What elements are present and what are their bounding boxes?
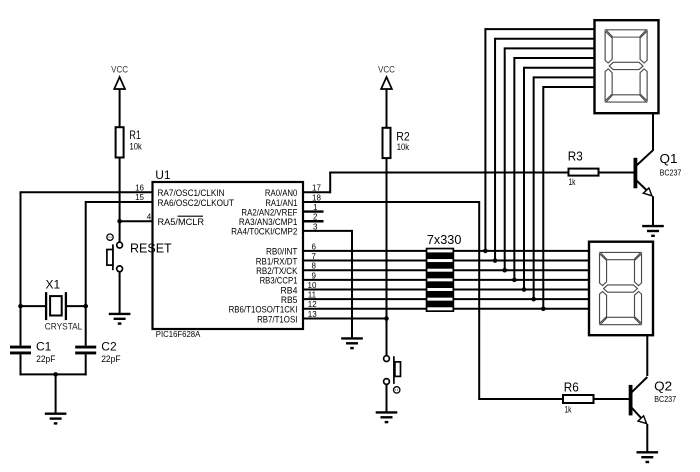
node pin4 junction	[117, 219, 122, 224]
pin name RA5/MCLR	[158, 217, 205, 227]
wire pack to display2 pin 2	[453, 260, 589, 262]
pin name RB5	[281, 295, 298, 305]
wire display1 segment 5	[524, 67, 595, 290]
label R1 value	[130, 141, 143, 151]
wire display1 segment 3	[505, 47, 595, 270]
node segment 7 junction	[541, 307, 546, 312]
power VCC1	[111, 65, 128, 90]
wire pin4 node to button	[119, 221, 121, 242]
wire pin3 RA4 to ground	[303, 230, 352, 339]
svg-text:RESET: RESET	[130, 242, 172, 256]
pin name RB7/T1OSI	[257, 314, 297, 324]
label R3	[568, 149, 583, 163]
display DS1 body	[595, 20, 659, 113]
ground Q1 emitter	[642, 226, 664, 236]
pin name RA2/AN2/VREF	[241, 207, 297, 217]
svg-text:U1: U1	[155, 168, 171, 182]
svg-text:10k: 10k	[130, 141, 143, 151]
pin number 16	[135, 183, 144, 192]
wire button to ground	[119, 272, 121, 314]
wire display1 segment 2	[495, 38, 594, 261]
node cap loop bottom junction	[53, 372, 58, 377]
svg-text:BC237: BC237	[654, 394, 676, 404]
svg-text:CRYSTAL: CRYSTAL	[45, 321, 83, 331]
label R6 value	[565, 404, 572, 414]
capacitor C2	[75, 306, 96, 375]
svg-text:RA1/AN1: RA1/AN1	[265, 198, 297, 208]
wire display1 common	[652, 113, 654, 151]
wire RB6 to pack	[303, 308, 427, 310]
svg-text:RA6/OSC2/CLKOUT: RA6/OSC2/CLKOUT	[158, 198, 235, 208]
pin name RB4	[281, 285, 298, 295]
svg-text:R6: R6	[564, 381, 579, 395]
pin number 8	[312, 262, 317, 271]
pin number 4	[147, 212, 152, 221]
svg-text:10k: 10k	[397, 142, 410, 152]
svg-text:15: 15	[135, 193, 144, 202]
label Q2 type BC237	[654, 394, 676, 404]
node crystal-left junction	[18, 304, 23, 309]
label R2 value	[397, 142, 410, 152]
svg-text:R3: R3	[568, 149, 583, 163]
label CRYSTAL	[45, 321, 83, 331]
label C1	[36, 339, 52, 353]
wire pack to display2 pin 4	[453, 279, 589, 281]
resistor pack RN1 7x330	[426, 248, 455, 312]
transistor Q1	[634, 150, 654, 226]
display DS2 digit	[600, 252, 642, 324]
pin name RB0/INT	[266, 247, 298, 257]
wire R6 to Q2 base	[594, 398, 630, 400]
label U1	[155, 168, 171, 182]
pin name RB1/RX/DT	[256, 256, 298, 266]
pin number 9	[312, 271, 317, 280]
pin number 7	[312, 252, 317, 261]
svg-text:RB5: RB5	[281, 295, 298, 305]
pin number 2	[313, 213, 318, 222]
pin number 15	[135, 193, 144, 202]
svg-text:PIC16F628A: PIC16F628A	[156, 329, 201, 339]
label PIC16F628A	[156, 329, 201, 339]
svg-text:Q2: Q2	[654, 379, 672, 393]
ground Q2 emitter	[637, 452, 659, 462]
pin name RB3/CCP1	[260, 276, 298, 286]
svg-text:RA0/AN0: RA0/AN0	[265, 188, 298, 198]
node segment 3 junction	[502, 268, 507, 273]
wire pack to display2 pin 1	[453, 250, 589, 252]
pin number 3	[313, 222, 318, 231]
svg-text:RA7/OSC1/CLKIN: RA7/OSC1/CLKIN	[158, 188, 225, 198]
capacitor C1	[10, 306, 31, 375]
svg-text:VCC: VCC	[111, 65, 128, 75]
svg-text:22pF: 22pF	[36, 354, 56, 364]
pin number 12	[308, 300, 317, 309]
label X1	[46, 278, 61, 292]
label Q1	[660, 152, 678, 166]
pin name RA4/T0CKI/CMP2	[231, 227, 297, 237]
pin number 11	[308, 291, 317, 300]
wire RB7 to R2 node	[303, 317, 387, 319]
ground button2	[376, 412, 398, 422]
node segment 6 junction	[531, 297, 536, 302]
ground RESET button	[109, 314, 131, 324]
pin name RB2/TX/CK	[256, 266, 298, 276]
wire VCC1 to R1	[119, 89, 121, 128]
overline MCLR	[178, 215, 204, 217]
svg-text:RA2/AN2/VREF: RA2/AN2/VREF	[241, 207, 297, 217]
label R2	[396, 129, 410, 143]
label C1 value	[36, 354, 56, 364]
wire RB4 to pack	[303, 289, 427, 291]
label C2 value	[101, 354, 121, 364]
wire R2 to button2	[386, 158, 388, 355]
label R6	[564, 381, 579, 395]
svg-text:RB0/INT: RB0/INT	[266, 247, 298, 257]
svg-text:4: 4	[147, 212, 152, 221]
wire display1 segment 7	[543, 86, 594, 309]
svg-text:RA5/MCLR: RA5/MCLR	[158, 217, 205, 227]
display DS2 body	[589, 242, 653, 336]
node segment 2 junction	[493, 258, 498, 263]
pin name RA0/AN0	[265, 188, 298, 198]
pin number 1	[313, 203, 318, 212]
node segment 4 junction	[512, 278, 517, 283]
label R3 value	[569, 177, 576, 187]
label C2	[101, 339, 117, 353]
node RB7 junction	[384, 316, 389, 321]
svg-text:X1: X1	[46, 278, 61, 292]
svg-text:RA3/AN3/CMP1: RA3/AN3/CMP1	[239, 217, 298, 227]
wire pack to display2 pin 6	[453, 298, 589, 300]
svg-text:BC237: BC237	[660, 168, 682, 178]
svg-text:RA4/T0CKI/CMP2: RA4/T0CKI/CMP2	[231, 227, 297, 237]
svg-text:C1: C1	[36, 339, 52, 353]
crystal X1	[21, 292, 86, 320]
resistor R3	[569, 169, 599, 176]
pin number 6	[312, 242, 317, 251]
svg-text:RB6/T1OSO/T1CKI: RB6/T1OSO/T1CKI	[229, 305, 298, 315]
svg-text:22pF: 22pF	[101, 354, 121, 364]
node crystal-right junction	[83, 304, 88, 309]
svg-text:1k: 1k	[569, 177, 576, 187]
svg-text:C2: C2	[101, 339, 117, 353]
ground crystal	[45, 414, 67, 424]
ground pin3 RA4	[341, 338, 363, 348]
svg-text:16: 16	[135, 183, 144, 192]
svg-text:RB3/CCP1: RB3/CCP1	[260, 276, 298, 286]
pin name RA3/AN3/CMP1	[239, 217, 298, 227]
wire display2 common	[646, 335, 648, 376]
pin number 10	[308, 281, 317, 290]
label RESET	[130, 242, 172, 256]
resistor R6	[563, 395, 594, 403]
svg-text:Q1: Q1	[660, 152, 678, 166]
wire RB2 to pack	[303, 269, 427, 271]
wire RB3 to pack	[303, 279, 427, 281]
wire cap loop bottom	[20, 373, 87, 375]
pin name RA6/OSC2/CLKOUT	[158, 198, 235, 208]
resistor R2	[383, 128, 391, 158]
wire VCC2 to R2	[386, 89, 388, 128]
display DS1 digit	[605, 30, 647, 102]
resistor R1	[116, 127, 124, 157]
svg-text:R1: R1	[129, 128, 141, 142]
wire pin18 RA1 to R6	[303, 201, 563, 399]
node segment 5 junction	[522, 287, 527, 292]
wire display1 segment 4	[514, 57, 594, 280]
wire pin4 RA5	[119, 220, 153, 222]
pin name RB6/T1OSO/T1CKI	[229, 305, 298, 315]
push-button RESET	[107, 234, 123, 272]
wire RB5 to pack	[303, 298, 427, 300]
pin number 18	[312, 193, 321, 202]
power VCC2	[378, 65, 395, 90]
svg-text:RB7/T1OSI: RB7/T1OSI	[257, 314, 297, 324]
wire button2 to ground	[386, 384, 388, 412]
transistor Q2	[629, 377, 648, 452]
wire RB0 to pack	[303, 250, 427, 252]
pin name RA7/OSC1/CLKIN	[158, 188, 225, 198]
wire pin16 RA7 to crystal-left	[21, 191, 153, 306]
label R1	[129, 128, 141, 142]
pin name RA1/AN1	[265, 198, 297, 208]
svg-text:RB1/RX/DT: RB1/RX/DT	[256, 256, 298, 266]
node segment 1 junction	[483, 249, 488, 254]
pin number 17	[312, 184, 321, 193]
svg-text:R2: R2	[396, 129, 410, 143]
svg-text:1k: 1k	[565, 404, 572, 414]
wire pack to display2 pin 3	[453, 269, 589, 271]
wire pin17 RA0 to R3	[303, 173, 569, 194]
wire pack to display2 pin 7	[453, 308, 589, 310]
label 7x330	[427, 232, 462, 247]
push-button SW2	[384, 356, 401, 393]
wire display1 segment 1	[485, 28, 594, 251]
svg-text:RB2/TX/CK: RB2/TX/CK	[256, 266, 298, 276]
label Q2	[654, 379, 672, 393]
svg-text:RB4: RB4	[281, 285, 298, 295]
wire pack to display2 pin 5	[453, 289, 589, 291]
wire pin2 RA3 stub	[303, 220, 324, 222]
IC U1 body	[153, 182, 304, 329]
wire pin15 RA6 to crystal-right	[86, 201, 153, 306]
wire RB1 to pack	[303, 260, 427, 262]
pin number 13	[308, 310, 317, 319]
wire display1 segment 6	[534, 76, 595, 299]
label Q1 type BC237	[660, 168, 682, 178]
wire to crystal ground	[55, 374, 57, 413]
wire R1 to pin4 node	[119, 158, 121, 222]
wire pin1 RA2 stub	[303, 210, 324, 212]
wire R3 to Q1 base	[599, 172, 634, 174]
svg-text:7x330: 7x330	[427, 232, 462, 247]
svg-text:VCC: VCC	[378, 65, 395, 75]
